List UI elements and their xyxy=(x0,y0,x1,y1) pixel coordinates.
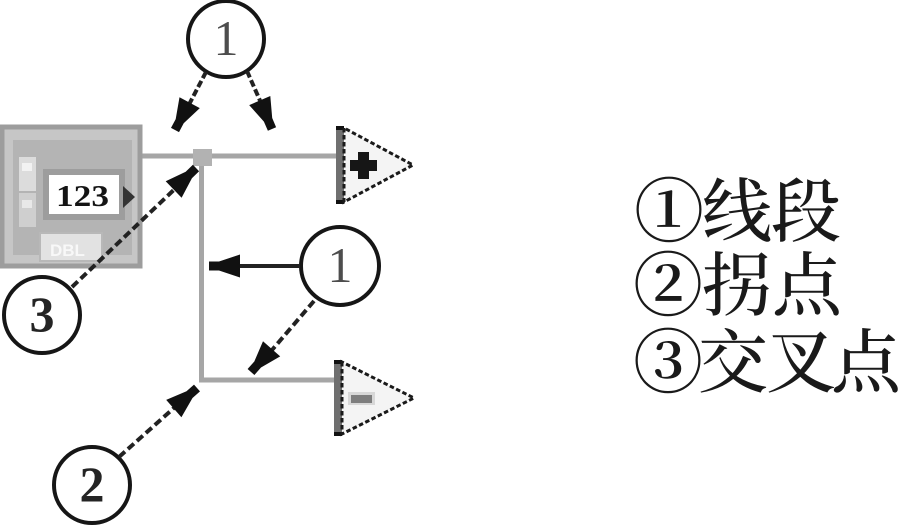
arrow from circle1-top to right wire point xyxy=(247,71,265,112)
char cha xyxy=(769,331,835,392)
arrow from circle1-top to left wire point xyxy=(182,72,206,118)
arrow from circle1-mid to bottom wire xyxy=(266,301,314,357)
callout circle 1 (middle) xyxy=(301,227,379,305)
arrow from circle2 to bend point xyxy=(119,399,184,457)
arrow from circle1-mid to vertical wire (left) xyxy=(228,264,300,268)
circled 2 xyxy=(636,251,701,317)
circled 1 xyxy=(637,177,702,243)
wire top horizontal segment xyxy=(140,154,338,159)
svg-text:3: 3 xyxy=(30,286,55,342)
junction square (cross point) xyxy=(193,149,212,166)
callout circle 2 xyxy=(54,447,130,523)
add (+) terminal node xyxy=(336,126,413,204)
callout circle 3 xyxy=(4,277,80,353)
wire vertical segment xyxy=(199,156,204,380)
char dian2 xyxy=(834,328,898,393)
svg-text:DBL: DBL xyxy=(50,241,85,260)
svg-text:123: 123 xyxy=(56,178,109,213)
char duan xyxy=(773,177,840,242)
svg-text:1: 1 xyxy=(328,237,353,293)
svg-text:2: 2 xyxy=(80,456,105,512)
wire bottom horizontal segment xyxy=(199,378,337,383)
char jiao xyxy=(701,328,767,393)
char xian xyxy=(704,177,770,242)
subtract (-) terminal node xyxy=(334,360,414,436)
callout circle 1 (top) xyxy=(188,1,264,77)
svg-text:1: 1 xyxy=(214,10,239,66)
arrow from circle3 to junction xyxy=(72,184,180,287)
numeric control terminal icon xyxy=(2,127,140,266)
char dian xyxy=(775,251,839,316)
circled 3 xyxy=(636,328,701,394)
char guai xyxy=(704,251,769,316)
